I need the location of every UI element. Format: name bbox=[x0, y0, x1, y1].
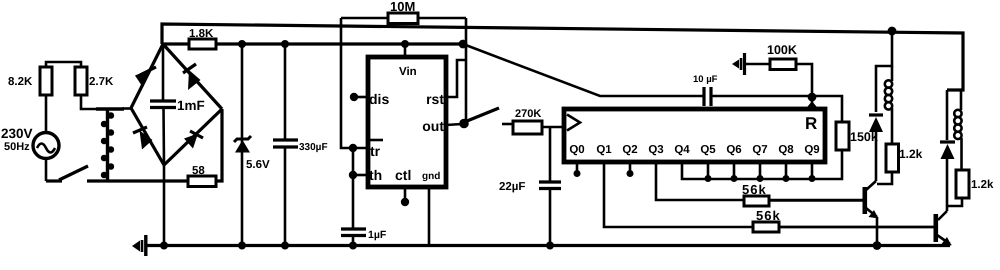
svg-text:out: out bbox=[422, 118, 444, 134]
svg-text:Q7: Q7 bbox=[752, 144, 767, 156]
svg-text:150k: 150k bbox=[850, 130, 878, 144]
svg-text:2.7K: 2.7K bbox=[89, 76, 114, 88]
svg-text:Q8: Q8 bbox=[778, 144, 794, 156]
svg-text:1mF: 1mF bbox=[177, 98, 205, 113]
svg-text:5.6V: 5.6V bbox=[246, 159, 270, 171]
svg-text:100K: 100K bbox=[767, 43, 797, 57]
svg-text:gnd: gnd bbox=[422, 171, 440, 182]
svg-text:Q6: Q6 bbox=[726, 144, 741, 156]
svg-text:Q1: Q1 bbox=[596, 144, 612, 156]
svg-text:Q0: Q0 bbox=[569, 144, 584, 156]
svg-text:R: R bbox=[805, 114, 817, 133]
svg-text:230V: 230V bbox=[1, 126, 33, 141]
svg-text:10M: 10M bbox=[390, 0, 415, 14]
svg-text:1.2k: 1.2k bbox=[971, 179, 994, 191]
svg-text:th: th bbox=[369, 167, 382, 183]
svg-text:56k: 56k bbox=[742, 182, 767, 197]
svg-text:1.2k: 1.2k bbox=[899, 147, 923, 161]
svg-text:10 µF: 10 µF bbox=[693, 74, 718, 85]
svg-text:1.8K: 1.8K bbox=[189, 28, 214, 40]
svg-text:rst: rst bbox=[426, 91, 444, 107]
svg-text:Q9: Q9 bbox=[804, 144, 819, 156]
svg-text:1µF: 1µF bbox=[368, 229, 387, 241]
svg-text:dis: dis bbox=[369, 91, 389, 107]
svg-text:58: 58 bbox=[192, 165, 205, 177]
svg-text:Vin: Vin bbox=[399, 66, 417, 78]
svg-text:8.2K: 8.2K bbox=[8, 76, 33, 88]
svg-text:tr: tr bbox=[370, 143, 381, 159]
svg-text:270K: 270K bbox=[515, 108, 541, 120]
svg-text:Q2: Q2 bbox=[622, 144, 637, 156]
svg-text:Q5: Q5 bbox=[700, 144, 716, 156]
svg-text:56k: 56k bbox=[756, 208, 781, 223]
svg-text:22µF: 22µF bbox=[499, 181, 525, 193]
svg-text:ctl: ctl bbox=[395, 167, 411, 183]
svg-text:Q4: Q4 bbox=[674, 144, 690, 156]
svg-text:Q3: Q3 bbox=[648, 144, 663, 156]
svg-text:330µF: 330µF bbox=[299, 142, 328, 153]
svg-text:50Hz: 50Hz bbox=[4, 141, 30, 153]
